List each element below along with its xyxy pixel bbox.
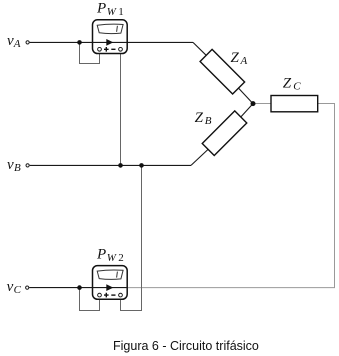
- node N (star point of ZA ZB ZC): [251, 101, 256, 106]
- wire node N to ZC (gray): [253, 103, 271, 105]
- junction on phase C (PW2 voltage tap): [77, 285, 82, 290]
- wattmeter PW1: [93, 20, 128, 54]
- svg-text:Figura 6 - Circuito trifásico: Figura 6 - Circuito trifásico: [113, 339, 259, 353]
- PW2 dial: [97, 270, 123, 279]
- svg-text:PW2: PW2: [96, 246, 124, 263]
- PW2 plus sign: [104, 293, 109, 298]
- junction on phase B at x=142 (PW2 voltage return): [139, 163, 144, 168]
- junction on phase B at x=120 (PW1 voltage return): [118, 163, 123, 168]
- svg-text:ZB: ZB: [195, 110, 212, 127]
- PW2 needle: [116, 272, 119, 278]
- PW2 minus sign: [111, 294, 115, 296]
- PW2 terminal -: [119, 293, 123, 297]
- svg-text:ZA: ZA: [231, 50, 248, 67]
- svg-text:PW1: PW1: [96, 1, 124, 18]
- PW1 plus sign: [104, 47, 109, 52]
- PW1 terminal +: [98, 47, 102, 51]
- wattmeter PW2: [93, 266, 128, 300]
- svg-text:vB: vB: [7, 157, 21, 174]
- PW1 minus sign: [111, 48, 115, 50]
- PW2 terminal +: [98, 293, 102, 297]
- PW1 needle: [116, 26, 119, 32]
- PW1 terminal -: [119, 47, 123, 51]
- wire ZA upper diagonal lead: [193, 42, 206, 55]
- wire phase A horizontal: [30, 41, 193, 43]
- wire phase B horizontal: [30, 164, 191, 166]
- junction on phase A (PW1 voltage tap): [77, 40, 82, 45]
- wire PW2 voltage loop from junction C: [80, 288, 100, 311]
- wire ZB upper diagonal lead to node N: [240, 104, 253, 118]
- impedance ZB: [202, 111, 247, 156]
- wire ZA lower diagonal lead to node N: [238, 88, 253, 104]
- wire PW1 voltage loop from junction A: [80, 42, 100, 63]
- impedance ZA: [200, 49, 245, 94]
- PW1 dial: [97, 24, 123, 33]
- impedance ZC: [271, 96, 318, 112]
- svg-text:vC: vC: [7, 279, 22, 296]
- svg-text:vA: vA: [7, 33, 21, 50]
- terminal vB: [26, 164, 29, 167]
- wire PW2 right terminal up to phase B: [121, 165, 142, 310]
- terminal vC: [26, 286, 29, 289]
- svg-text:ZC: ZC: [283, 76, 302, 93]
- wire ZC to right edge (gray): [128, 104, 335, 288]
- PW2 current arrow: [106, 284, 113, 291]
- PW1 current arrow: [106, 39, 113, 46]
- wire PW1 right terminal down to phase B: [120, 52, 122, 166]
- terminal vA: [26, 41, 29, 44]
- wire phase C horizontal: [29, 287, 128, 289]
- wire ZB lower diagonal lead: [191, 149, 209, 166]
